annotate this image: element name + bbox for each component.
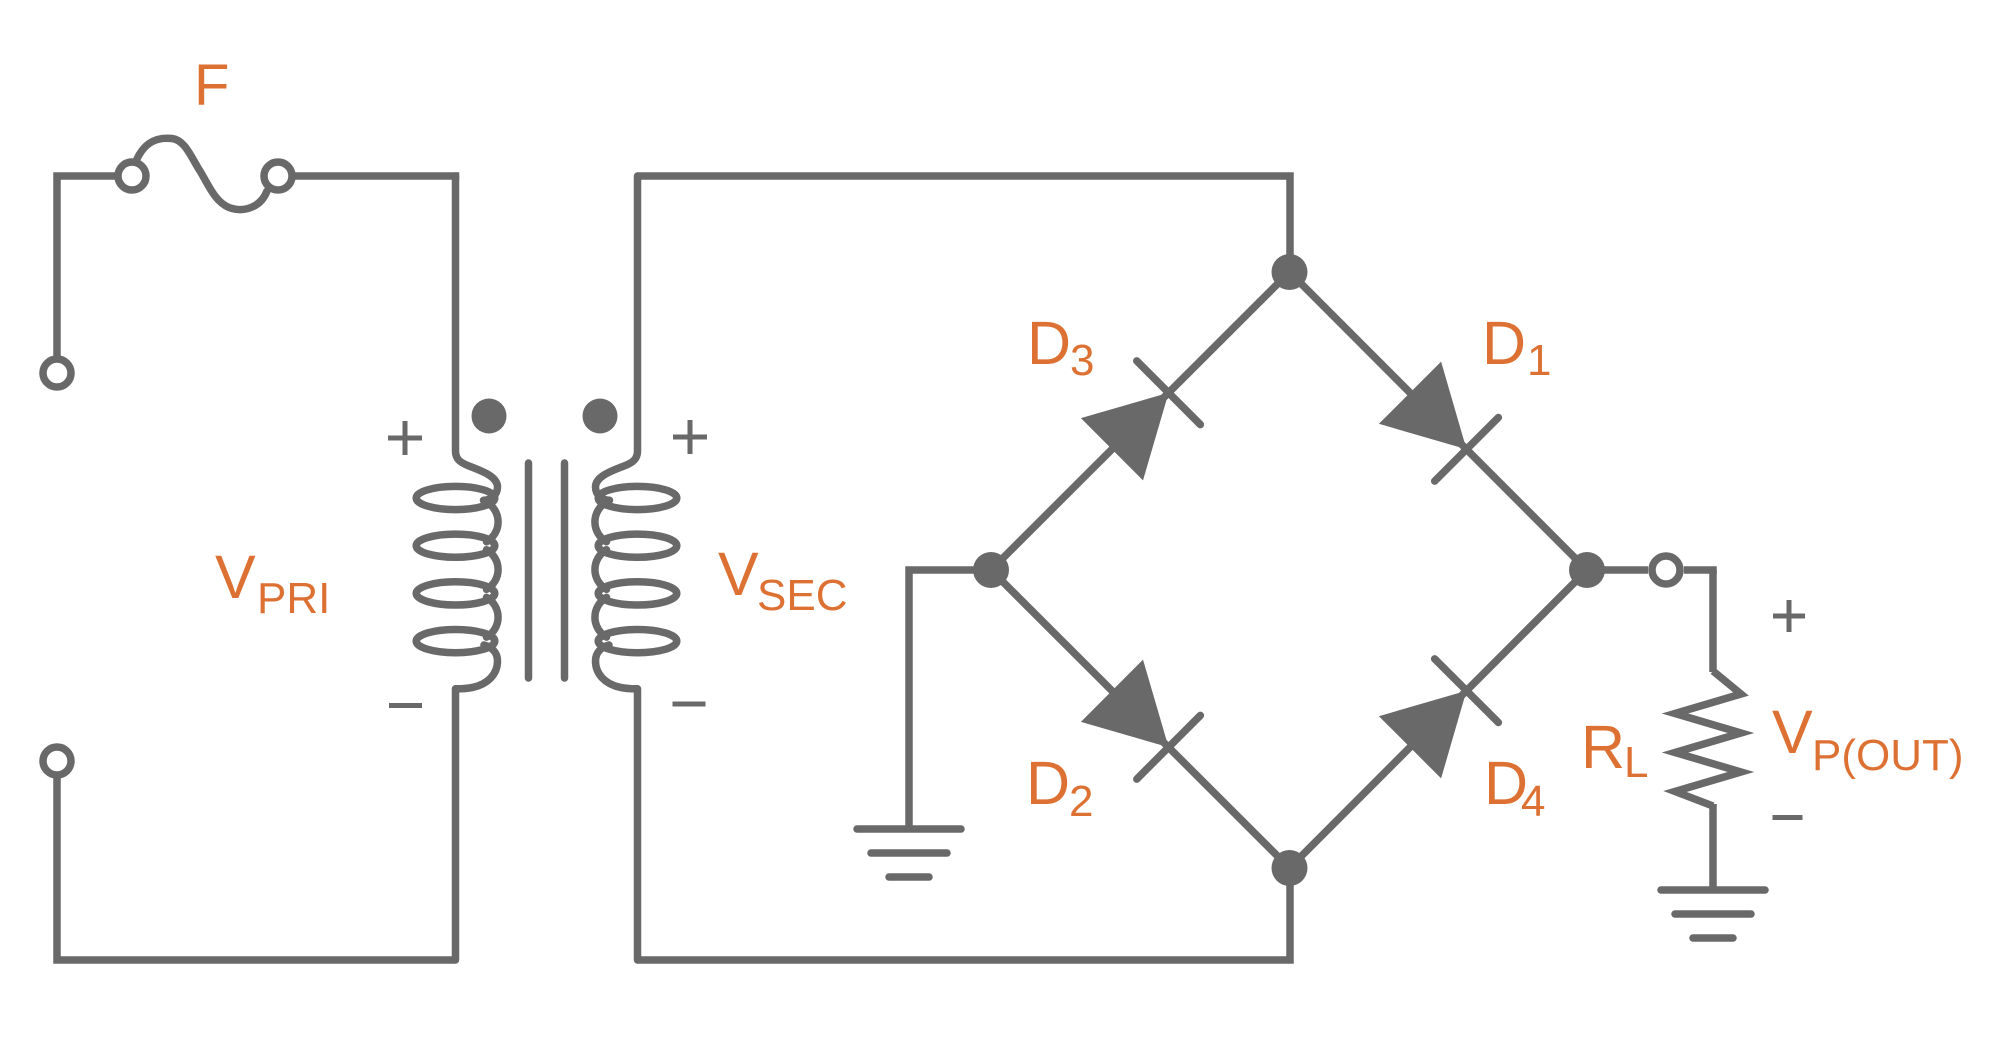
svg-text:3: 3 <box>1070 336 1094 385</box>
svg-text:PRI: PRI <box>257 574 330 623</box>
svg-text:D: D <box>1027 309 1071 377</box>
svg-text:V: V <box>718 540 759 608</box>
svg-text:F: F <box>194 53 229 118</box>
svg-text:V: V <box>1772 698 1813 766</box>
svg-text:L: L <box>1624 738 1648 787</box>
svg-text:P(OUT): P(OUT) <box>1812 731 1964 780</box>
svg-text:1: 1 <box>1527 336 1551 385</box>
svg-text:D: D <box>1026 749 1070 817</box>
svg-text:V: V <box>215 543 256 611</box>
svg-text:D: D <box>1482 309 1526 377</box>
svg-text:SEC: SEC <box>757 571 847 620</box>
svg-text:4: 4 <box>1521 777 1545 826</box>
svg-text:R: R <box>1581 713 1625 781</box>
svg-text:2: 2 <box>1069 777 1093 826</box>
